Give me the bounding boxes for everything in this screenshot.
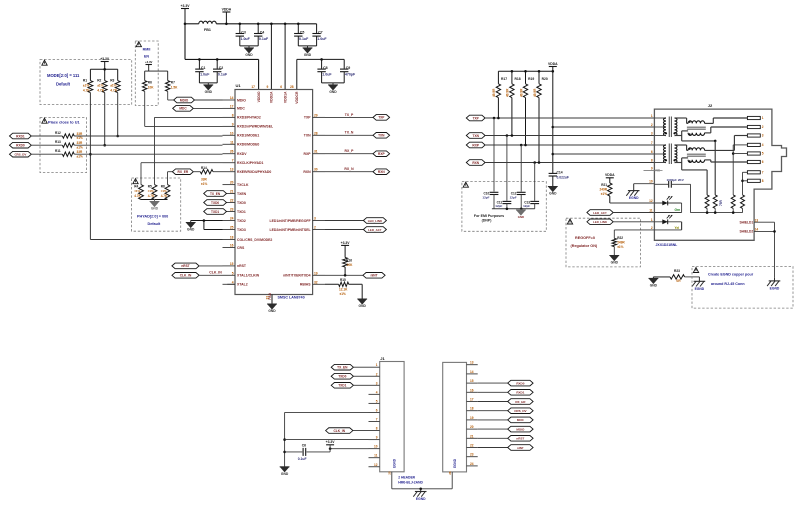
svg-text:1: 1 [651, 114, 653, 118]
svg-text:2: 2 [762, 125, 764, 129]
svg-text:R21: R21 [601, 183, 607, 187]
svg-text:nINT/TXER/TXD4: nINT/TXER/TXD4 [283, 274, 311, 278]
svg-text:EGND: EGND [453, 458, 457, 468]
svg-text:1: 1 [376, 363, 378, 367]
svg-text:VDDA: VDDA [222, 7, 232, 11]
svg-text:SMSC LAN8740: SMSC LAN8740 [278, 295, 305, 299]
svg-text:21: 21 [230, 190, 234, 194]
svg-text:CRS_DV: CRS_DV [514, 409, 527, 413]
svg-text:RMII: RMII [143, 48, 151, 52]
svg-text:U1: U1 [236, 83, 242, 88]
svg-text:C4: C4 [260, 30, 265, 34]
svg-text:75R: 75R [719, 200, 723, 206]
svg-text:10K: 10K [148, 86, 154, 90]
svg-text:REGOFF=0: REGOFF=0 [575, 236, 595, 240]
svg-text:RXP: RXP [304, 152, 312, 156]
svg-text:LED1/nINT/PME/REGOFF: LED1/nINT/PME/REGOFF [270, 219, 311, 223]
svg-text:14: 14 [230, 96, 234, 100]
svg-text:6: 6 [280, 85, 282, 89]
svg-text:C7: C7 [318, 30, 323, 34]
svg-text:±1%: ±1% [110, 84, 116, 88]
svg-text:49.9R: 49.9R [533, 88, 537, 97]
svg-text:+3.3V: +3.3V [145, 60, 153, 64]
svg-text:GND: GND [329, 90, 337, 94]
svg-text:R16: R16 [346, 258, 352, 262]
svg-text:J1: J1 [380, 356, 385, 361]
svg-text:4.7K: 4.7K [148, 194, 155, 198]
svg-text:TXD0: TXD0 [237, 201, 246, 205]
svg-text:0.1uF: 0.1uF [298, 457, 307, 461]
svg-text:TXN: TXN [473, 134, 480, 138]
svg-text:12pF: 12pF [482, 195, 489, 199]
svg-text:R14: R14 [201, 166, 207, 170]
svg-text:TXD0: TXD0 [338, 375, 346, 379]
svg-text:20: 20 [230, 181, 234, 185]
svg-text:CRS: CRS [237, 246, 245, 250]
svg-text:LED_LINK: LED_LINK [593, 220, 608, 224]
svg-text:±1%: ±1% [161, 189, 167, 193]
svg-text:4.7K: 4.7K [83, 89, 91, 93]
svg-text:32: 32 [314, 280, 318, 284]
svg-text:6: 6 [651, 150, 653, 154]
svg-text:31: 31 [314, 150, 318, 154]
svg-text:4: 4 [232, 280, 234, 284]
svg-text:10K: 10K [347, 263, 353, 267]
svg-text:RXD1: RXD1 [16, 134, 25, 138]
svg-text:(DNP): (DNP) [482, 218, 492, 222]
svg-text:5: 5 [232, 271, 234, 275]
svg-text:J2: J2 [708, 103, 713, 108]
svg-text:MODE[2:0] = 111: MODE[2:0] = 111 [47, 73, 80, 78]
svg-text:VDD1A: VDD1A [283, 91, 287, 103]
svg-text:20: 20 [470, 425, 474, 429]
svg-text:25: 25 [388, 471, 392, 475]
svg-text:nRST: nRST [237, 264, 247, 268]
svg-text:10: 10 [230, 131, 234, 135]
svg-text:RXDV: RXDV [237, 152, 247, 156]
svg-text:7: 7 [651, 141, 653, 145]
svg-text:RXP: RXP [378, 152, 385, 156]
svg-text:2: 2 [314, 226, 316, 230]
svg-text:18: 18 [470, 407, 474, 411]
svg-text:MDIO: MDIO [180, 98, 189, 102]
svg-text:VDD2A: VDD2A [270, 91, 274, 103]
svg-text:XTAL1/CLKIN: XTAL1/CLKIN [237, 274, 260, 278]
svg-text:RXN: RXN [378, 170, 385, 174]
svg-text:33R: 33R [77, 132, 83, 136]
svg-text:4: 4 [376, 390, 378, 394]
svg-text:33R: 33R [201, 178, 207, 182]
svg-text:R6: R6 [148, 81, 152, 85]
svg-text:7: 7 [762, 170, 764, 174]
svg-text:C6: C6 [302, 443, 306, 447]
svg-text:EGND: EGND [695, 287, 705, 291]
svg-text:±1%: ±1% [77, 145, 83, 149]
svg-text:±1%: ±1% [77, 136, 83, 140]
svg-text:2: 2 [376, 372, 378, 376]
svg-text:13: 13 [230, 168, 234, 172]
svg-text:R1: R1 [83, 79, 87, 83]
svg-text:0.022uF: 0.022uF [557, 176, 569, 180]
svg-text:nRST: nRST [516, 437, 524, 441]
svg-text:1.5K: 1.5K [171, 86, 178, 90]
svg-text:RXD2/nPWRDWN/SEL: RXD2/nPWRDWN/SEL [237, 125, 273, 129]
svg-text:TXP: TXP [378, 116, 385, 120]
svg-text:TX_P: TX_P [345, 113, 354, 117]
svg-text:RXD1: RXD1 [516, 391, 524, 395]
svg-text:CLK_IN: CLK_IN [209, 270, 222, 274]
svg-text:49.9R: 49.9R [492, 88, 496, 97]
svg-text:TXP: TXP [304, 116, 311, 120]
svg-text:24: 24 [470, 462, 474, 466]
svg-text:R5: R5 [148, 185, 152, 189]
svg-text:4.7K: 4.7K [97, 89, 105, 93]
svg-text:Yel: Yel [675, 226, 680, 230]
svg-text:SHIELD2: SHIELD2 [739, 230, 753, 234]
svg-text:+3.3V: +3.3V [326, 440, 336, 444]
svg-text:TXP: TXP [473, 116, 480, 120]
svg-text:1.0uF: 1.0uF [241, 37, 251, 41]
svg-text:±1%: ±1% [134, 189, 140, 193]
svg-text:16: 16 [470, 388, 474, 392]
svg-text:MDIO: MDIO [237, 98, 246, 102]
svg-text:RX_ER: RX_ER [515, 400, 526, 404]
svg-text:9: 9 [376, 436, 378, 440]
svg-text:R8: R8 [161, 185, 165, 189]
svg-text:+3.3V: +3.3V [341, 241, 351, 245]
svg-text:28: 28 [290, 85, 294, 89]
svg-text:SHIELD1: SHIELD1 [739, 220, 753, 224]
svg-text:25: 25 [230, 226, 234, 230]
svg-text:26: 26 [448, 471, 452, 475]
svg-text:6: 6 [762, 160, 764, 164]
svg-text:9: 9 [266, 85, 268, 89]
svg-text:RXD0: RXD0 [516, 381, 524, 385]
svg-text:9: 9 [651, 167, 653, 171]
svg-text:9: 9 [232, 122, 234, 126]
svg-text:RXD1/MODE1: RXD1/MODE1 [237, 134, 259, 138]
svg-text:±1%: ±1% [83, 84, 89, 88]
svg-text:TXN: TXN [378, 134, 385, 138]
svg-text:4: 4 [762, 143, 764, 147]
svg-text:±1%: ±1% [617, 245, 623, 249]
svg-text:EN: EN [144, 55, 149, 59]
svg-text:17: 17 [230, 104, 234, 108]
svg-text:RXP: RXP [472, 143, 479, 147]
svg-text:249R: 249R [599, 188, 607, 192]
svg-text:19: 19 [470, 416, 474, 420]
svg-text:GND: GND [611, 261, 619, 265]
svg-text:GND: GND [304, 53, 312, 57]
svg-text:nINT: nINT [370, 274, 377, 278]
svg-text:For EMI Purposes: For EMI Purposes [474, 214, 504, 218]
svg-text:RX_ER: RX_ER [178, 170, 189, 174]
svg-text:1000pF 2KV: 1000pF 2KV [667, 178, 685, 182]
svg-text:33R: 33R [77, 141, 83, 145]
svg-text:R20: R20 [542, 77, 548, 81]
svg-text:8: 8 [376, 427, 378, 431]
svg-text:12pF: 12pF [523, 204, 530, 208]
svg-text:EGND: EGND [416, 497, 426, 501]
svg-text:6: 6 [376, 408, 378, 412]
svg-text:22: 22 [470, 444, 474, 448]
svg-text:HM0-BLJ-2AND: HM0-BLJ-2AND [398, 481, 423, 485]
svg-text:LED_ACT: LED_ACT [368, 228, 382, 232]
svg-text:10: 10 [374, 445, 378, 449]
svg-text:LED2/nINT/PME/nINTSEL: LED2/nINT/PME/nINTSEL [270, 228, 311, 232]
svg-text:3: 3 [762, 134, 764, 138]
svg-text:EGND: EGND [392, 458, 396, 468]
svg-text:16: 16 [230, 244, 234, 248]
svg-text:MDC: MDC [517, 418, 525, 422]
svg-text:14: 14 [470, 370, 474, 374]
svg-text:TXD2: TXD2 [237, 219, 246, 223]
svg-text:R3: R3 [110, 79, 114, 83]
svg-text:C2: C2 [219, 66, 224, 70]
svg-text:23: 23 [470, 453, 474, 457]
svg-text:EGND: EGND [770, 287, 780, 291]
svg-text:2: 2 [651, 123, 653, 127]
svg-text:49.9R: 49.9R [506, 88, 510, 97]
svg-text:±1%: ±1% [97, 84, 103, 88]
svg-text:28: 28 [314, 131, 318, 135]
svg-text:5: 5 [762, 152, 764, 156]
svg-text:R23: R23 [674, 269, 680, 273]
svg-text:0.1uF: 0.1uF [299, 37, 309, 41]
svg-text:3: 3 [314, 217, 316, 221]
svg-text:R13: R13 [55, 140, 61, 144]
svg-text:R19: R19 [528, 77, 534, 81]
svg-text:0R: 0R [676, 279, 681, 283]
svg-text:RX_N: RX_N [344, 167, 354, 171]
svg-text:RXER/RXD4/PHYAD0: RXER/RXD4/PHYAD0 [237, 170, 271, 174]
svg-text:GND: GND [549, 192, 557, 196]
svg-text:VDDCR: VDDCR [295, 91, 299, 104]
svg-text:VDDA: VDDA [605, 173, 615, 177]
svg-text:JXX1D21BNL: JXX1D21BNL [656, 243, 678, 247]
svg-text:±1%: ±1% [148, 189, 154, 193]
svg-text:10: 10 [649, 180, 653, 184]
svg-text:PHYAD[2:0] = 000: PHYAD[2:0] = 000 [137, 215, 168, 219]
svg-text:8: 8 [762, 179, 764, 183]
svg-text:±1%: ±1% [340, 292, 346, 296]
svg-text:2: 2 [651, 226, 653, 230]
svg-text:GND: GND [187, 228, 195, 232]
svg-text:±1%: ±1% [601, 192, 607, 196]
svg-text:R4: R4 [134, 185, 138, 189]
svg-text:0.1uF: 0.1uF [259, 37, 269, 41]
svg-text:RXCLK/PHYAD1: RXCLK/PHYAD1 [237, 161, 264, 165]
svg-text:3: 3 [651, 132, 653, 136]
svg-text:+3.3V: +3.3V [100, 57, 110, 61]
svg-text:4.7K: 4.7K [134, 194, 141, 198]
svg-text:22: 22 [230, 199, 234, 203]
svg-text:GND: GND [151, 207, 159, 211]
svg-text:C3: C3 [241, 30, 246, 34]
svg-text:R2: R2 [97, 79, 101, 83]
svg-text:nRST: nRST [181, 264, 189, 268]
svg-text:CLK_IN: CLK_IN [180, 274, 192, 278]
svg-text:26: 26 [230, 150, 234, 154]
svg-text:19: 19 [314, 271, 318, 275]
svg-text:18: 18 [230, 236, 234, 240]
svg-text:5: 5 [376, 399, 378, 403]
svg-text:12pF: 12pF [510, 195, 517, 199]
svg-text:1.0uF: 1.0uF [322, 72, 332, 76]
svg-text:R17: R17 [501, 77, 507, 81]
svg-text:17: 17 [251, 85, 255, 89]
svg-text:4.7K: 4.7K [110, 89, 118, 93]
svg-text:CRS_DV: CRS_DV [14, 152, 26, 156]
svg-text:TX_EN: TX_EN [210, 192, 221, 196]
svg-text:1: 1 [762, 116, 764, 120]
svg-text:Default: Default [148, 222, 161, 226]
svg-text:15: 15 [230, 262, 234, 266]
svg-text:R18: R18 [515, 77, 521, 81]
svg-text:470pF: 470pF [345, 72, 356, 76]
svg-text:GND: GND [518, 215, 524, 219]
svg-text:COL/CRS_DV/MODE2: COL/CRS_DV/MODE2 [237, 238, 272, 242]
svg-text:8: 8 [651, 159, 653, 163]
svg-text:RXN: RXN [303, 170, 311, 174]
svg-text:11: 11 [230, 140, 234, 144]
svg-text:RXD0/MODE0: RXD0/MODE0 [237, 143, 259, 147]
svg-text:3: 3 [376, 381, 378, 385]
svg-text:TXD3: TXD3 [237, 228, 246, 232]
svg-text:12pF: 12pF [495, 204, 502, 208]
svg-text:2 HEADER: 2 HEADER [398, 476, 415, 480]
svg-text:EGND: EGND [629, 196, 639, 200]
svg-text:LED_ACT: LED_ACT [593, 211, 607, 215]
svg-text:around RJ-45 Conn: around RJ-45 Conn [711, 282, 745, 286]
svg-text:4.7K: 4.7K [161, 194, 168, 198]
svg-text:11: 11 [374, 454, 378, 458]
svg-text:1: 1 [651, 218, 653, 222]
svg-text:C8: C8 [323, 66, 328, 70]
svg-text:R11: R11 [55, 149, 61, 153]
svg-text:24: 24 [230, 217, 234, 221]
svg-text:R7: R7 [171, 81, 175, 85]
svg-text:1.0uF: 1.0uF [200, 72, 210, 76]
svg-text:30: 30 [314, 168, 318, 172]
svg-text:12: 12 [649, 199, 653, 203]
svg-text:R22: R22 [617, 236, 623, 240]
svg-text:MDC: MDC [179, 107, 187, 111]
svg-text:TX_EN: TX_EN [337, 365, 348, 369]
svg-text:MDIO: MDIO [516, 427, 525, 431]
svg-text:TXD0: TXD0 [211, 201, 219, 205]
svg-text:13: 13 [470, 361, 474, 365]
svg-text:15: 15 [470, 379, 474, 383]
svg-text:GND: GND [281, 472, 289, 476]
svg-text:249R: 249R [617, 241, 625, 245]
svg-text:Grn: Grn [675, 208, 681, 212]
svg-text:Create EGND copper pour: Create EGND copper pour [708, 272, 754, 276]
svg-text:TXCLK: TXCLK [237, 183, 249, 187]
svg-text:VDDA: VDDA [548, 62, 558, 66]
svg-text:TXD1: TXD1 [338, 384, 346, 388]
svg-text:Default: Default [56, 82, 71, 87]
svg-text:21: 21 [470, 434, 474, 438]
svg-text:LED_LINK: LED_LINK [368, 219, 383, 223]
svg-text:MDC: MDC [237, 107, 245, 111]
svg-text:RBIAS: RBIAS [300, 283, 311, 287]
svg-text:C5: C5 [300, 30, 305, 34]
svg-text:0.1uF: 0.1uF [218, 72, 228, 76]
svg-text:GND: GND [268, 309, 276, 313]
svg-text:17: 17 [470, 398, 474, 402]
svg-text:CLK_IN: CLK_IN [333, 429, 345, 433]
svg-text:R12: R12 [55, 131, 61, 135]
svg-text:C9: C9 [346, 66, 351, 70]
svg-text:33R: 33R [77, 150, 83, 154]
svg-text:RXD3/PHYAD2: RXD3/PHYAD2 [237, 116, 261, 120]
svg-text:nINT: nINT [517, 446, 524, 450]
svg-text:XTAL2: XTAL2 [237, 283, 248, 287]
svg-text:7: 7 [376, 418, 378, 422]
svg-text:8: 8 [232, 113, 234, 117]
svg-text:PAD: PAD [268, 292, 272, 299]
svg-text:TX_N: TX_N [345, 131, 354, 135]
svg-text:GND: GND [650, 284, 658, 288]
svg-text:C1: C1 [201, 66, 206, 70]
svg-text:Place close to U1: Place close to U1 [48, 120, 80, 124]
svg-text:TXD1: TXD1 [237, 210, 246, 214]
svg-text:GND: GND [205, 90, 213, 94]
svg-text:C14: C14 [557, 171, 563, 175]
svg-text:7: 7 [232, 159, 234, 163]
svg-text:RXN: RXN [472, 161, 479, 165]
svg-text:GND: GND [359, 304, 367, 308]
svg-text:TXEN: TXEN [237, 192, 247, 196]
svg-text:11: 11 [649, 209, 653, 213]
svg-text:1.0uF: 1.0uF [317, 37, 327, 41]
svg-text:GND: GND [245, 53, 253, 57]
svg-text:±1%: ±1% [201, 182, 207, 186]
svg-text:(Regulator ON): (Regulator ON) [571, 244, 598, 248]
svg-text:+3.3V: +3.3V [181, 4, 191, 8]
svg-text:49.9R: 49.9R [519, 88, 523, 97]
svg-text:RX_P: RX_P [345, 149, 355, 153]
svg-text:29: 29 [314, 113, 318, 117]
svg-text:TXN: TXN [304, 134, 311, 138]
svg-text:±1%: ±1% [77, 154, 83, 158]
svg-text:TXD1: TXD1 [211, 210, 219, 214]
svg-text:R15: R15 [340, 278, 346, 282]
svg-text:12: 12 [374, 463, 378, 467]
svg-text:VDDIO: VDDIO [257, 91, 261, 102]
svg-text:FB1: FB1 [204, 28, 211, 32]
svg-text:23: 23 [230, 208, 234, 212]
svg-text:RXD0: RXD0 [16, 143, 25, 147]
